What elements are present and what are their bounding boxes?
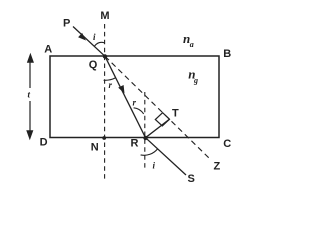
point Q xyxy=(103,54,107,58)
angle arc i at R (emergent) xyxy=(141,149,158,155)
svg-text:R: R xyxy=(131,138,139,150)
svg-text:M: M xyxy=(100,10,109,22)
svg-text:T: T xyxy=(172,108,179,120)
arrowhead on incident ray xyxy=(78,33,86,41)
svg-text:D: D xyxy=(40,136,48,148)
svg-text:Z: Z xyxy=(214,161,221,173)
emergent ray RS xyxy=(146,138,187,175)
angle arc r at R xyxy=(134,108,144,114)
svg-text:B: B xyxy=(223,48,231,60)
point N xyxy=(102,136,106,140)
svg-text:C: C xyxy=(223,138,231,150)
point R xyxy=(143,136,147,140)
dashed extension Q to Z xyxy=(105,56,209,158)
arrowhead on refracted ray xyxy=(118,85,124,94)
svg-text:i: i xyxy=(153,160,156,170)
svg-text:Q: Q xyxy=(89,59,98,71)
normal at R (dashed vertical) xyxy=(144,92,146,170)
svg-text:g: g xyxy=(193,76,198,85)
thickness arrow t (double-headed, left of slab) xyxy=(27,55,33,139)
svg-text:N: N xyxy=(91,142,99,154)
angle arc r at Q xyxy=(104,78,116,81)
perpendicular RT xyxy=(146,119,170,138)
svg-text:S: S xyxy=(188,173,195,185)
svg-text:t: t xyxy=(28,90,31,100)
refracted ray QR xyxy=(105,56,146,137)
svg-text:A: A xyxy=(44,43,52,55)
incident ray P xyxy=(73,27,105,57)
normal MN (dashed vertical through Q) xyxy=(104,24,106,181)
svg-text:P: P xyxy=(63,18,70,30)
right angle mark at T xyxy=(155,113,169,126)
svg-text:i: i xyxy=(93,32,96,42)
glass slab rectangle ABCD xyxy=(50,56,219,138)
angle arc i at Q xyxy=(94,42,104,46)
svg-text:r: r xyxy=(133,98,137,108)
svg-text:a: a xyxy=(190,40,194,49)
svg-text:r: r xyxy=(109,80,113,90)
